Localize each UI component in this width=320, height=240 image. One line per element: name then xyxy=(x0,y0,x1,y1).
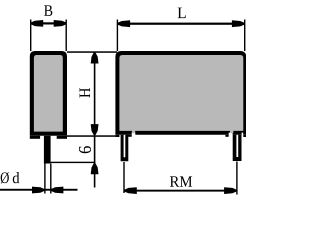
dimension L label xyxy=(178,8,186,18)
dimension Od label xyxy=(1,172,20,183)
dimension B left arrow xyxy=(31,20,44,27)
dimension L right extension line xyxy=(244,20,245,52)
dimension Od right extension line xyxy=(50,164,51,194)
front view bottom thin-zone carve right xyxy=(229,133,233,135)
vertical dimension line H/6 xyxy=(94,52,96,188)
dimension 6 label (rotated) xyxy=(79,146,91,153)
side view lead (solid) xyxy=(44,136,51,164)
dimension Od left arrow xyxy=(32,187,45,194)
dimension Od leader line xyxy=(0,189,78,191)
front view bottom thin-zone carve left xyxy=(132,133,136,135)
dimension B left extension line xyxy=(30,20,31,52)
front view bottom thin-zone carve far right xyxy=(242,133,244,135)
front view right corner foot xyxy=(243,135,246,137)
dimension H label (rotated) xyxy=(80,88,90,98)
dimension Od right arrow xyxy=(51,187,64,194)
dimension L left extension line xyxy=(117,20,118,52)
front view left corner foot xyxy=(115,135,119,137)
front view foot left of right lead xyxy=(225,135,228,137)
front view right lead outline xyxy=(233,135,242,161)
front view gray tab left xyxy=(132,131,135,134)
dimension B right arrow xyxy=(54,20,66,27)
dimension RM right arrow xyxy=(224,187,237,194)
dimension L right arrow xyxy=(232,20,245,27)
front view foot right of left lead xyxy=(128,135,132,137)
dimension RM left arrow xyxy=(124,187,137,194)
front view gray tab right xyxy=(230,131,233,134)
lead tip level line xyxy=(51,162,96,163)
front view box gray body xyxy=(119,55,243,131)
dimension L line xyxy=(117,23,244,25)
dimension 6 bottom arrow xyxy=(91,164,99,175)
bottom connector line between views xyxy=(67,135,115,137)
front view left lead outline xyxy=(121,135,129,162)
front view box (right) outline xyxy=(115,51,246,135)
dimension L left arrow xyxy=(118,20,131,27)
dimension H bottom arrow xyxy=(91,124,99,135)
dimension H top arrow xyxy=(91,53,99,64)
side view left foot xyxy=(30,136,40,139)
side view box (left) outline xyxy=(30,51,67,136)
side view right foot xyxy=(57,136,67,139)
dimension RM line xyxy=(124,190,237,192)
dimension RM right extension line xyxy=(236,162,237,195)
dimension Od left extension line xyxy=(44,164,45,194)
dimension B line xyxy=(31,22,67,24)
dimension RM label xyxy=(170,176,192,186)
dimension RM left extension line xyxy=(123,162,124,193)
side view box gray body xyxy=(34,55,63,132)
dimension B right extension line xyxy=(66,20,67,52)
top connector line between views xyxy=(67,51,117,53)
dimension B label xyxy=(44,5,52,16)
